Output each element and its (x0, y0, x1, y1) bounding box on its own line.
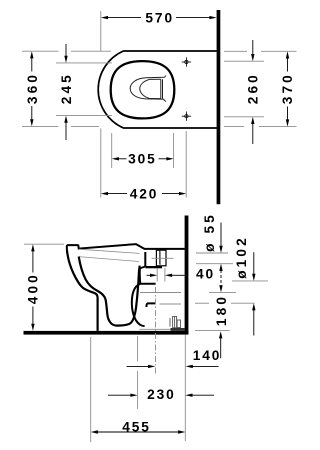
floor (24, 331, 189, 335)
line F: floor level right of wall (195, 330, 230, 332)
dimension ø55 (arrows outside at x=221) (219, 223, 222, 293)
spud axis cross (152, 257, 174, 259)
wall (side view) (185, 216, 189, 335)
bowl inner curve into trapway U (79, 257, 140, 326)
svg-text:ø102: ø102 (234, 235, 249, 279)
extension line left of 570/420 (100, 11, 102, 52)
svg-text:245: 245 (59, 72, 74, 104)
fixing hole marker bottom (182, 112, 191, 121)
spud bottom bar (146, 266, 163, 268)
outlet top wall and trap back leg (132, 284, 156, 326)
line B: spud bottom level (196, 263, 233, 265)
dimension 360 (left) (22, 51, 111, 126)
svg-text:455: 455 (122, 419, 151, 434)
svg-text:400: 400 (26, 272, 41, 304)
svg-text:260: 260 (245, 72, 260, 104)
dimension 40 (horizontal, arrows outside) (157, 268, 165, 282)
svg-text:370: 370 (280, 72, 295, 104)
inner bowl rim (top view) (111, 61, 175, 118)
line A: spud top level (196, 252, 228, 254)
dimension 245 (left, arrows outside) (56, 63, 112, 116)
svg-text:230: 230 (147, 387, 176, 402)
outlet bottom wall (146, 303, 155, 307)
line D: 180 top level (140, 292, 181, 294)
back outline down to outlet (140, 267, 145, 284)
drain centerline (dash-dot) (155, 287, 157, 375)
svg-text:140: 140 (193, 348, 222, 363)
dimension 140 (horizontal, arrows outside) (127, 365, 219, 368)
pan outer shell front curve and pedestal front (67, 251, 98, 331)
rim inner slope (thin) (79, 249, 140, 253)
dimension 260 (right, arrows outside) (224, 61, 264, 117)
svg-text:360: 360 (25, 72, 40, 104)
wall (top view) (217, 10, 221, 204)
svg-text:180: 180 (214, 294, 229, 326)
dimension 370 (right, arrows inside) (224, 51, 297, 126)
bowl back wall (144, 252, 146, 267)
dimension 400 (left) (24, 243, 64, 245)
dimension 455 (91, 335, 186, 442)
svg-text:570: 570 (145, 10, 174, 25)
pan profile: rim top and back block (67, 244, 185, 251)
dimension 570 (101, 16, 217, 19)
line E: outlet bottom level (160, 303, 182, 305)
right side reference lines (140, 253, 268, 331)
fixing hole marker top (182, 57, 191, 66)
dimension 305 (bottom of top view) (112, 133, 174, 168)
svg-text:420: 420 (130, 186, 159, 201)
dimension ø102 (arrows outside at x=253.8) (252, 252, 255, 335)
svg-text:ø 55: ø 55 (202, 212, 217, 252)
outlet bracket detail near wall (170, 317, 181, 328)
dimension 420 (bottom of top view) (185, 131, 187, 198)
dimension 230 (137, 336, 139, 409)
inlet spud rectangle (156, 250, 166, 266)
svg-text:40: 40 (196, 267, 215, 282)
drain / sump outline inside bowl (130, 76, 166, 102)
elbow base faint line (140, 328, 177, 330)
pan outer outline (top view) (98, 51, 217, 128)
svg-text:305: 305 (128, 152, 157, 167)
line C: outlet top level (232, 280, 268, 282)
